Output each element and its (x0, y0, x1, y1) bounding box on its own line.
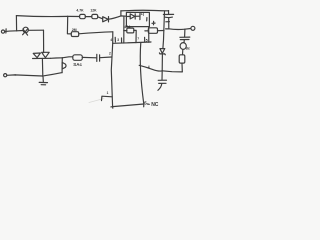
resistor R2 (92, 14, 98, 18)
wire opto right down to IC top (148, 27, 150, 43)
wire stub top rail B left end down (120, 11, 122, 16)
svg-text:3: 3 (117, 38, 119, 42)
wire R1-R2 (85, 16, 92, 18)
svg-text:4: 4 (110, 38, 112, 42)
wire A1 to lamp (5, 30, 23, 33)
wire down to triac (43, 30, 45, 52)
svg-text:1: 1 (107, 91, 109, 95)
resistor R1 (80, 14, 86, 18)
neon lamp X2 (180, 43, 186, 50)
svg-text:2: 2 (109, 52, 111, 56)
svg-text:SAc: SAc (73, 62, 82, 67)
node input junction (16, 30, 17, 31)
pin stub top a (114, 37, 116, 42)
IC U1 box (113, 42, 151, 43)
tick mark near opto pin (146, 18, 148, 21)
wire C1 to IC pin 2 (100, 56, 112, 59)
capacitor C4 (below junction) (161, 71, 163, 80)
wire R7 to C1 (82, 56, 96, 58)
diode inside U2 (128, 15, 131, 17)
wire R5 left lead (145, 30, 148, 32)
SAC resistor R7 (73, 55, 83, 61)
wire vertical up from junction (15, 16, 17, 31)
wire R4 right lead down to IC (134, 30, 136, 42)
wire gate junction to R7 (62, 57, 73, 58)
capacitor C2 (electrolytic top right) (168, 11, 170, 15)
triac Q1 (33, 53, 40, 58)
terminal A1 (top-left input) (1, 30, 4, 33)
wire IC pin4 to chain bottom (139, 65, 182, 72)
wire J1 down to R3 (67, 17, 71, 34)
resistor R3 (71, 32, 78, 37)
wire A2 to ground node (7, 75, 43, 76)
node chain top (184, 29, 185, 30)
svg-text:2M: 2M (72, 28, 77, 32)
svg-text:5: 5 (144, 100, 147, 105)
wire diode to bottom rail (44, 73, 62, 76)
diode D1 (103, 17, 109, 22)
terminal A3 (output) (191, 26, 195, 30)
IC bottom-left pin stub (102, 96, 113, 100)
wire R6 down to bottom wire (181, 63, 183, 72)
wire top rail B (121, 9, 169, 12)
pin stub top c (144, 37, 146, 42)
wire right rail upper (163, 11, 165, 48)
svg-text:12K: 12K (90, 9, 97, 13)
faint scan streak (89, 99, 104, 103)
terminal A2 (bottom-left input) (4, 74, 7, 77)
pin stub top b (121, 38, 123, 43)
wire lamp to triac drop (29, 29, 44, 31)
svg-text:5: 5 (146, 38, 148, 42)
svg-text:8c: 8c (186, 47, 190, 51)
svg-text:NC: NC (151, 102, 159, 108)
ground (42, 76, 44, 82)
node blob on bottom wire (14, 74, 16, 76)
node ground junction (42, 75, 44, 77)
svg-text:464: 464 (124, 25, 130, 29)
wire lamp to R6 (182, 50, 184, 55)
polarity tick near A1 (5, 29, 7, 33)
output wire to terminal (166, 29, 191, 30)
wire left drop to IC pin 3 (123, 17, 125, 43)
node rail bottom junction (161, 70, 163, 72)
polarity tick on C2 lead (166, 21, 170, 23)
wire R5 to rail (158, 30, 165, 32)
svg-text:7: 7 (137, 37, 139, 41)
svg-text:4: 4 (148, 65, 150, 69)
capacitor C3 (180, 36, 190, 38)
zener D3 (160, 49, 165, 54)
wire rail lower (161, 54, 163, 71)
wire down to IC top (112, 32, 114, 43)
wire triac MT1 down (41, 59, 43, 76)
wire R2 to D1 (98, 17, 103, 19)
wire gate to node (51, 57, 63, 60)
opto box U2 (126, 12, 149, 26)
wire down to C3 (184, 29, 186, 37)
wire J1 to R1 (68, 15, 80, 17)
dash (147, 103, 149, 105)
wire top rail left (16, 15, 67, 18)
capacitor C1 (96, 54, 98, 61)
resistor R4 (127, 28, 134, 33)
wire D1 to opto box (109, 16, 127, 19)
wire R3 to IC pin (79, 32, 113, 34)
lamp/indicator X1 (23, 27, 28, 32)
diode D2 (vertical) (61, 58, 63, 73)
wire R4 left lead (124, 30, 127, 32)
wire C3 to lamp (183, 40, 185, 43)
resistor R5 (148, 28, 157, 34)
plus mark (152, 21, 155, 24)
svg-text:(1): (1) (139, 11, 145, 16)
svg-text:4.7K: 4.7K (76, 9, 84, 13)
node J1 on top rail (67, 16, 69, 18)
resistor R6 (179, 55, 185, 63)
node gate junction (62, 57, 63, 58)
